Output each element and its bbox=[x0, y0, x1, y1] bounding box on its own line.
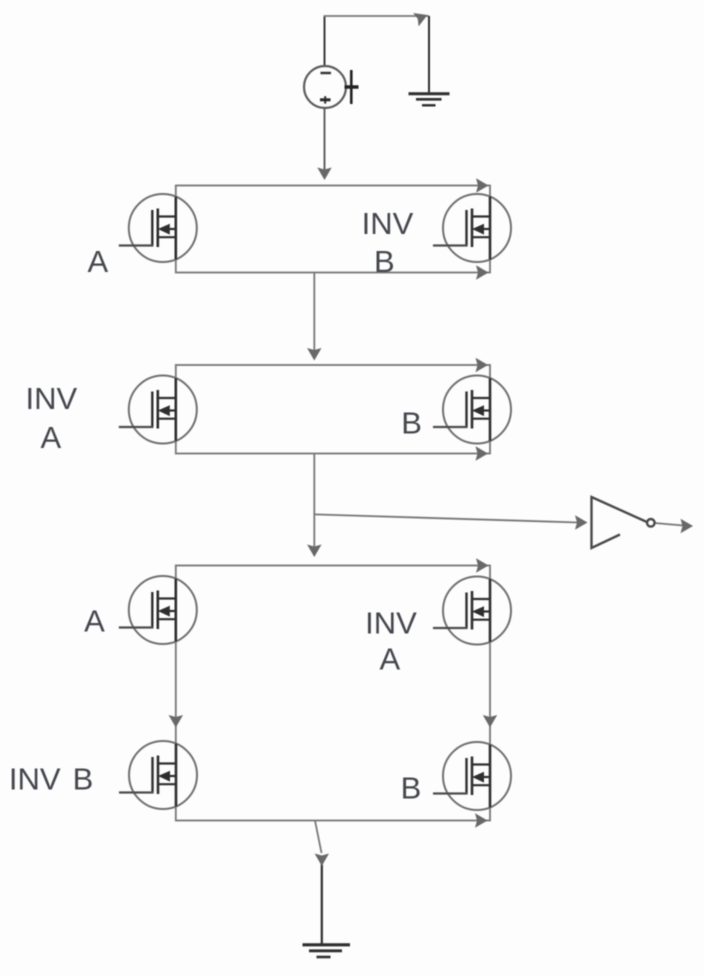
svg-text:A: A bbox=[88, 244, 109, 279]
svg-text:A: A bbox=[84, 604, 105, 639]
svg-text:B: B bbox=[374, 244, 395, 279]
svg-text:B: B bbox=[401, 771, 422, 806]
svg-text:INV: INV bbox=[362, 206, 414, 241]
svg-text:INV: INV bbox=[25, 381, 77, 416]
svg-text:B: B bbox=[401, 406, 422, 441]
svg-text:A: A bbox=[379, 642, 400, 677]
svg-text:INV B: INV B bbox=[9, 762, 93, 797]
svg-text:A: A bbox=[40, 420, 61, 455]
svg-text:INV: INV bbox=[365, 606, 417, 641]
